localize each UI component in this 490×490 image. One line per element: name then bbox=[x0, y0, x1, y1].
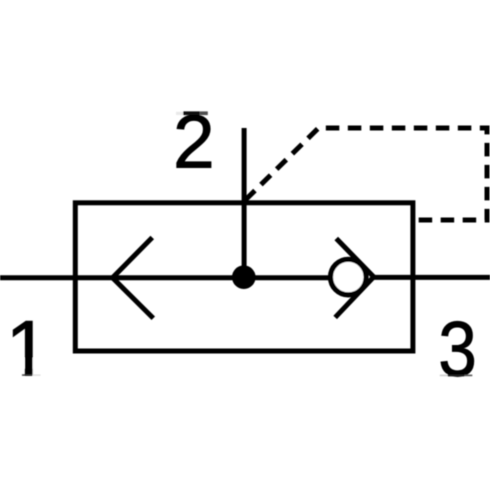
artifact bar below label 1 bbox=[22, 374, 33, 376]
svg-text:1: 1 bbox=[6, 304, 49, 392]
valve body rectangle bbox=[75, 203, 413, 351]
wire: main flow line from port 1 into valve body bbox=[0, 275, 331, 280]
wire: main flow line from check valve to port 3 bbox=[373, 275, 490, 280]
check valve arrow (free flow, left) bbox=[113, 239, 152, 316]
svg-text:3: 3 bbox=[438, 305, 477, 393]
artifact bar above label 2 bbox=[176, 112, 183, 115]
check valve circle (right) bbox=[331, 259, 367, 295]
pilot control line (dashed) from node to body bbox=[245, 128, 487, 220]
junction node (dot) bbox=[232, 265, 256, 289]
wire: port 2 vertical line bbox=[242, 128, 247, 277]
check valve seat arrow (right) bbox=[337, 240, 374, 315]
artifact bar below label 3 bbox=[440, 375, 448, 377]
